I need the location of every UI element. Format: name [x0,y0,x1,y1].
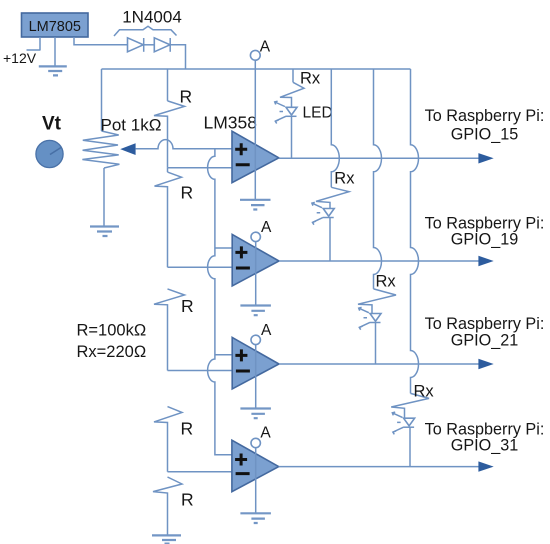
LED 3 arrows [359,308,370,327]
svg-text:To Raspberry Pi:: To Raspberry Pi: [425,107,545,125]
svg-text:A: A [261,219,272,236]
ground (LM7805) [39,66,67,75]
wire LED 3 to output 3 [375,323,377,365]
ground (chain bottom) [152,535,181,543]
svg-text:Pot 1kΩ: Pot 1kΩ [101,116,162,135]
wire ground pin LM7805 [54,37,56,66]
resistor R2 [155,172,182,267]
wire output 2 [279,260,480,262]
svg-text:R: R [181,296,194,316]
wire op-amp 2 power to ground [255,242,257,306]
svg-text:A: A [260,425,271,442]
wire diode cathode down to rail [170,45,185,69]
svg-text:Rx: Rx [334,170,355,188]
svg-text:Rx: Rx [300,70,321,88]
arrow output 2 [478,256,493,266]
wire between diodes [144,44,155,46]
wire chain 1-2 [167,168,169,172]
svg-text:Rx: Rx [376,273,397,291]
LED D5 [370,314,381,322]
wire op-amp 3 power to ground [255,345,257,409]
wire output 3 [279,363,480,365]
LED 1 arrows [275,102,286,121]
wire LED column 2 with hop over output 1 [331,69,339,187]
wire minus input op-amp 2 [168,266,233,268]
resistor Rx1 [280,82,304,107]
node A op-amp 2 [251,232,260,241]
svg-text:GPIO_19: GPIO_19 [451,231,519,249]
wire LED column 1 top [292,69,294,82]
op-amp U1C [232,337,279,389]
svg-text:Rx: Rx [414,383,435,401]
arrow output 1 [478,153,493,163]
svg-text:R: R [181,490,194,510]
wire minus input op-amp 4 [168,471,232,473]
arrow output 3 [478,359,493,369]
wire output 1 [279,157,480,159]
op-amp U1D [232,440,279,492]
resistor R4 [154,407,182,472]
knob Vt [36,140,63,167]
wire +12V input pin [27,37,41,50]
svg-text:GPIO_31: GPIO_31 [451,437,519,455]
diode D1 1N4004 [128,38,144,52]
wire top rail [102,68,411,70]
svg-text:R: R [181,419,194,439]
wire minus input op-amp 3 [168,370,233,372]
wire LED column 4 with hops over outputs 1,2,3 [411,69,419,393]
svg-text:A: A [260,39,271,56]
ground (op-amp 4) [240,513,271,523]
svg-text:1N4004: 1N4004 [122,8,182,27]
wire LED 1 to output 1 [291,116,293,158]
op-amp U1A [232,131,279,183]
diode D2 1N4004 [154,38,170,52]
wire op-amp 1 power from rail through to ground [254,60,256,200]
LED D6 [404,418,415,426]
svg-text:LED: LED [303,105,333,122]
wire Vt distribution vertical with hops [208,149,232,455]
svg-text:GPIO_15: GPIO_15 [451,126,519,144]
LED 2 arrows [312,203,323,222]
wire pot top [101,69,103,131]
brace over diodes [114,26,177,36]
svg-text:Vt: Vt [42,114,62,135]
regulator U1 LM7805 [22,13,89,37]
op-amp U1B [232,234,279,286]
wire LED 2 to output 2 [329,218,331,262]
resistor Rx2 [316,187,349,208]
resistor R3 [154,289,185,371]
svg-text:+12V: +12V [3,50,37,66]
svg-text:LM7805: LM7805 [29,19,81,35]
svg-text:To Raspberry Pi:: To Raspberry Pi: [425,315,545,333]
node A op-amp 4 [251,438,260,447]
svg-text:Rx=220Ω: Rx=220Ω [77,343,147,361]
resistor Rx3 [358,289,396,314]
wire regulator output to diodes [74,37,128,45]
wire pot bottom [103,168,105,226]
arrow output 4 [478,461,493,471]
ground (op-amp 2) [240,306,271,316]
svg-text:A: A [261,322,272,339]
wire plus input op-amp 2 [215,247,232,249]
svg-text:R: R [180,87,193,107]
LED D4 [323,209,334,217]
wire LED 4 to output 4 [409,427,411,466]
svg-text:LM358: LM358 [204,113,258,133]
wire LED column 3 with hops over outputs 1,2 [374,69,382,289]
wire wiper to op-amp 1 plus input (hop over chain) [135,140,232,149]
node A op-amp 3 [251,335,260,344]
resistor R5 [153,477,182,535]
wire plus input op-amp 3 [215,354,232,356]
potentiometer Pot 1k [82,131,119,168]
LED 4 arrows [393,413,404,432]
wire chain top [167,69,169,101]
wire minus input op-amp 1 [168,167,233,169]
wire op-amp 4 power to ground [255,448,257,514]
svg-text:GPIO_21: GPIO_21 [451,332,519,350]
svg-text:R=100kΩ: R=100kΩ [77,322,147,340]
resistor R1 [154,101,185,168]
ground (op-amp 3) [240,409,271,419]
svg-text:R: R [181,183,194,203]
resistor Rx4 [391,393,429,418]
LED D3 [286,107,297,115]
wire output 4 [279,466,480,468]
wiper arrow [120,143,135,155]
ground (op-amp 1) [240,200,271,210]
ground (pot) [90,227,119,237]
node A top [250,50,260,60]
